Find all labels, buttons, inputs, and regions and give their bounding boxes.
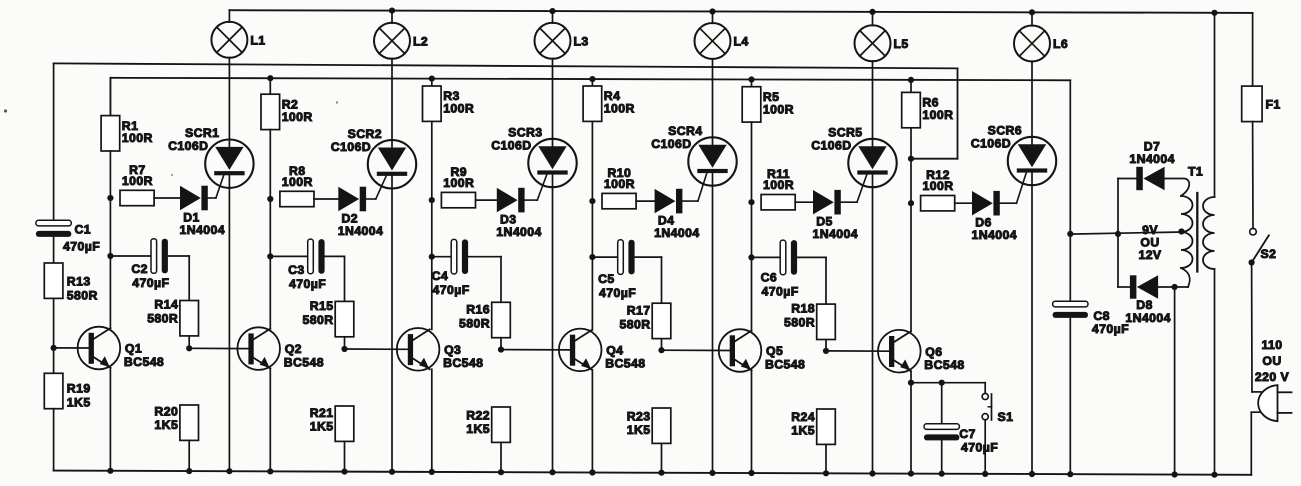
svg-text:100R: 100R (604, 177, 635, 191)
svg-text:470µF: 470µF (599, 286, 636, 300)
svg-text:BC548: BC548 (443, 356, 483, 370)
svg-text:470µF: 470µF (961, 441, 998, 455)
svg-text:100R: 100R (922, 108, 953, 122)
svg-text:C3: C3 (288, 263, 305, 277)
svg-text:SCR6: SCR6 (988, 124, 1022, 138)
svg-text:1K5: 1K5 (67, 396, 91, 410)
svg-text:100R: 100R (763, 178, 794, 192)
svg-text:S2: S2 (1261, 247, 1277, 261)
svg-text:R18: R18 (791, 302, 815, 316)
svg-text:580R: 580R (459, 316, 490, 330)
svg-text:C7: C7 (959, 427, 976, 441)
svg-text:1N4004: 1N4004 (338, 224, 383, 238)
svg-text:C8: C8 (1093, 309, 1110, 323)
svg-text:SCR1: SCR1 (185, 126, 219, 140)
svg-text:470µF: 470µF (433, 283, 470, 297)
svg-text:Q4: Q4 (606, 344, 623, 358)
svg-text:580R: 580R (620, 317, 651, 331)
svg-text:100R: 100R (122, 131, 153, 145)
svg-text:1N4004: 1N4004 (972, 228, 1017, 242)
svg-text:SCR3: SCR3 (508, 126, 542, 140)
svg-text:R13: R13 (67, 275, 91, 289)
svg-text:1N4004: 1N4004 (1125, 311, 1170, 325)
svg-text:100R: 100R (604, 102, 635, 116)
svg-text:470µF: 470µF (1092, 322, 1129, 336)
svg-text:C1: C1 (75, 223, 92, 237)
svg-text:Q1: Q1 (125, 342, 142, 356)
svg-text:1K5: 1K5 (310, 420, 334, 434)
svg-text:1K5: 1K5 (466, 422, 490, 436)
svg-text:C106D: C106D (651, 137, 691, 151)
svg-text:470µF: 470µF (762, 285, 799, 299)
svg-text:C4: C4 (432, 269, 449, 283)
svg-text:BC548: BC548 (605, 357, 645, 371)
svg-text:D8: D8 (1136, 298, 1153, 312)
svg-text:100R: 100R (122, 174, 153, 188)
svg-text:100R: 100R (443, 102, 474, 116)
svg-text:100R: 100R (282, 110, 313, 124)
svg-text:L4: L4 (734, 35, 749, 49)
svg-text:L6: L6 (1053, 37, 1068, 51)
svg-text:F1: F1 (1266, 98, 1281, 112)
svg-text:R16: R16 (466, 303, 490, 317)
svg-text:BC548: BC548 (765, 357, 805, 371)
svg-text:1K5: 1K5 (627, 423, 651, 437)
svg-text:110: 110 (1261, 338, 1282, 352)
svg-text:R20: R20 (154, 405, 178, 419)
svg-text:Q5: Q5 (766, 344, 783, 358)
svg-text:100R: 100R (282, 175, 313, 189)
svg-text:L5: L5 (894, 37, 909, 51)
svg-text:SCR5: SCR5 (828, 126, 862, 140)
svg-text:1N4004: 1N4004 (813, 227, 858, 241)
svg-text:580R: 580R (67, 289, 98, 303)
svg-text:C5: C5 (598, 272, 615, 286)
svg-text:T1: T1 (1188, 165, 1203, 179)
svg-text:L2: L2 (413, 35, 428, 49)
svg-text:L3: L3 (574, 35, 589, 49)
svg-text:12V: 12V (1138, 248, 1161, 262)
svg-text:580R: 580R (303, 313, 334, 327)
svg-text:C6: C6 (761, 271, 778, 285)
svg-text:470µF: 470µF (289, 277, 326, 291)
svg-text:1K5: 1K5 (791, 424, 815, 438)
svg-text:1N4004: 1N4004 (180, 223, 225, 237)
svg-text:C106D: C106D (168, 139, 208, 153)
svg-text:C106D: C106D (971, 137, 1011, 151)
svg-text:1K5: 1K5 (154, 418, 178, 432)
svg-text:L1: L1 (250, 34, 265, 48)
svg-text:100R: 100R (443, 176, 474, 190)
svg-text:Q2: Q2 (285, 342, 302, 356)
svg-text:S1: S1 (998, 410, 1014, 424)
svg-text:R15: R15 (310, 299, 334, 313)
svg-text:470µF: 470µF (63, 240, 100, 254)
svg-text:Q3: Q3 (444, 343, 461, 357)
svg-text:1N4004: 1N4004 (1129, 152, 1174, 166)
svg-text:C2: C2 (131, 262, 148, 276)
svg-text:C106D: C106D (331, 140, 371, 154)
svg-text:100R: 100R (763, 102, 794, 116)
svg-text:BC548: BC548 (124, 355, 164, 369)
svg-text:R14: R14 (154, 298, 178, 312)
svg-text:SCR2: SCR2 (348, 127, 382, 141)
svg-text:580R: 580R (147, 311, 178, 325)
svg-text:SCR4: SCR4 (668, 124, 702, 138)
svg-text:R24: R24 (791, 410, 815, 424)
svg-text:R17: R17 (627, 304, 651, 318)
svg-text:470µF: 470µF (132, 276, 169, 290)
svg-text:C106D: C106D (811, 139, 851, 153)
svg-text:580R: 580R (784, 315, 815, 329)
svg-text:BC548: BC548 (924, 358, 964, 372)
svg-text:OU: OU (1262, 354, 1281, 368)
svg-text:R19: R19 (67, 382, 91, 396)
svg-text:R22: R22 (466, 409, 490, 423)
svg-text:BC548: BC548 (284, 355, 324, 369)
svg-text:1N4004: 1N4004 (496, 225, 541, 239)
svg-text:R23: R23 (627, 410, 651, 424)
svg-text:220 V: 220 V (1255, 370, 1290, 384)
svg-text:Q6: Q6 (925, 345, 942, 359)
svg-text:R21: R21 (310, 406, 334, 420)
svg-text:100R: 100R (923, 179, 954, 193)
svg-text:1N4004: 1N4004 (654, 226, 699, 240)
svg-text:C106D: C106D (491, 139, 531, 153)
